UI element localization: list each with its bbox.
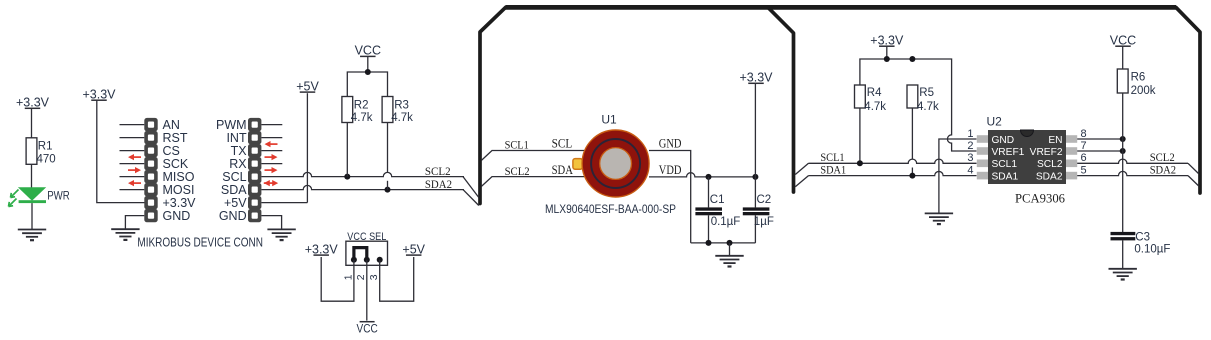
svg-text:VCC: VCC [357,321,379,335]
wire [380,257,414,301]
svg-text:+3.3V: +3.3V [16,96,50,110]
wire [97,101,145,203]
arrow SCL direction [265,167,278,173]
resistor R5 [907,85,918,108]
wire [729,243,731,256]
arrow CS direction [128,154,141,160]
svg-text:VCC: VCC [355,44,381,58]
svg-text:R3: R3 [394,100,409,112]
svg-text:RX: RX [229,157,247,171]
svg-text:GND: GND [219,209,247,223]
LED PWR (green) [18,187,46,203]
connector header P2 right column (pins PWM..GND) [248,118,261,222]
wire [347,72,387,97]
svg-text:SDA1: SDA1 [820,163,846,177]
svg-text:+5V: +5V [296,79,319,93]
wire [911,168,913,176]
svg-text:1: 1 [967,128,973,140]
svg-text:CS: CS [163,144,180,158]
svg-text:SCL2: SCL2 [425,164,451,178]
svg-text:4: 4 [967,164,973,176]
svg-text:AN: AN [163,118,180,132]
connector header P1 left column (pins AN..GND) [144,118,157,222]
wire [795,176,808,187]
wire [387,181,389,190]
svg-text:MLX90640ESF-BAA-000-SP: MLX90640ESF-BAA-000-SP [545,204,676,216]
wire net SCL2 [261,172,464,176]
svg-text:0.1µF: 0.1µF [711,216,741,228]
wire net SDA2 (right) [1077,171,1188,175]
junction (C1-VDD) [706,174,712,180]
wire (U2 pin2 VREF1) [947,133,976,151]
svg-text:EN: EN [1048,135,1062,146]
capacitor C2 [743,177,770,243]
LED emission arrows [9,190,19,207]
wire [795,163,808,174]
svg-text:4.7k: 4.7k [351,112,373,124]
junction (C2-VDD) [752,174,758,180]
junction [884,56,890,62]
wire [346,123,348,177]
wire [31,164,33,188]
svg-text:+3.3V: +3.3V [82,87,116,101]
svg-text:SDA2: SDA2 [425,177,452,191]
svg-text:2: 2 [967,140,973,152]
junction (R2-SCL2) [344,174,350,180]
svg-text:SDA: SDA [221,183,247,197]
wire (U2 pin8 EN) [1077,138,1123,140]
wire [261,216,281,230]
resistor R4 [855,85,866,108]
svg-text:R5: R5 [919,87,934,99]
svg-text:R1: R1 [38,140,53,152]
svg-text:PCA9306: PCA9306 [1015,191,1066,205]
wire [261,202,307,204]
svg-text:GND: GND [992,135,1015,146]
wire (U2 pin1 GND) [939,139,977,213]
wire net SCL2 (right) [1077,159,1188,163]
net +3.3V (U1 supply) [739,71,773,85]
svg-text:7: 7 [1081,140,1087,152]
wire [754,84,756,177]
wire [125,216,144,230]
svg-text:C3: C3 [1135,231,1150,243]
svg-text:R2: R2 [354,100,369,112]
wire [911,108,913,159]
svg-text:8: 8 [1081,128,1087,140]
arrow TX direction [265,141,278,147]
svg-text:+3.3V: +3.3V [163,196,197,210]
U2 pin numbers [967,128,1086,177]
wire [366,260,368,321]
svg-text:U1: U1 [601,113,617,127]
svg-text:GND: GND [163,209,191,223]
resistor R3 [382,97,393,123]
arrow MISO direction [128,180,141,186]
wire [321,257,354,301]
pin labels PWM INT TX RX SCL SDA +5V GND [216,118,247,223]
capacitor C1 [695,177,722,243]
wire [31,203,33,229]
svg-text:INT: INT [226,131,247,145]
ground (LED) [18,230,46,241]
net +5V (VCC SEL right) [402,242,425,256]
junction (C1 bottom) [706,240,712,246]
net +5V (rail) [296,79,319,93]
svg-text:+3.3V: +3.3V [870,33,904,47]
svg-text:+3.3V: +3.3V [305,242,339,256]
capacitor C3 [1111,232,1136,269]
svg-text:PWR: PWR [47,189,70,203]
svg-text:+5V: +5V [402,242,425,256]
wire net VDD [649,173,755,177]
svg-text:SCL1: SCL1 [505,137,529,151]
net +3.3V (VCC SEL left) [305,242,339,256]
wire [387,123,389,173]
svg-text:3: 3 [369,274,380,280]
pin labels AN RST CS SCK MISO MOSI +3.3V GND [163,118,197,223]
wire [463,177,479,198]
wire (+3.3V bus) [860,59,952,133]
wire [1122,47,1124,69]
arrow SCK direction [128,167,141,173]
svg-text:C2: C2 [757,194,772,206]
svg-text:SCL1: SCL1 [992,159,1018,170]
svg-text:200k: 200k [1131,85,1156,97]
junction (ground stub) [727,240,733,246]
wire (decoupling ground rail) [691,242,756,244]
svg-text:GND: GND [659,137,682,151]
IC U2 PCA9306 body [977,130,1077,184]
svg-text:PWM: PWM [216,118,247,132]
wire [886,47,888,59]
arrow RX direction [265,154,278,160]
junction (R4-SCL1) [857,160,863,166]
net VCC (pull-ups) [355,44,381,58]
ground (left header) [111,229,139,240]
jumper pin 2 [364,257,370,263]
svg-text:VDD: VDD [659,163,682,177]
resistor R1 [26,138,37,165]
wire [31,109,33,139]
sensor U1 MLX90640 body [582,130,649,197]
wire net SDA1 (to U2) [809,171,977,175]
arrow SDA bidirectional [264,180,278,186]
jumper pin 3 [377,257,383,263]
ground (right header) [267,229,295,240]
svg-text:3: 3 [967,152,973,164]
wire [859,108,861,163]
svg-text:SDA2: SDA2 [1036,172,1063,183]
svg-text:C1: C1 [710,194,725,206]
junction (EN-R6) [1120,136,1126,142]
junction [909,56,915,62]
wire stubs (left header signals) [120,125,145,190]
label VCC (jumper common) [357,321,379,335]
svg-text:R6: R6 [1131,72,1146,84]
wire stubs (PWM INT TX RX) [261,125,282,164]
U1 pin-1 marker tab [573,159,583,170]
wire net SCL2 (into magnified view) [481,177,584,187]
junction (R3-SDA2) [385,187,391,193]
svg-text:4.7k: 4.7k [917,101,939,113]
svg-text:0.10µF: 0.10µF [1134,244,1170,256]
ground (U1 decoupling) [715,256,743,267]
svg-text:470: 470 [37,153,56,165]
wire [1188,163,1199,173]
wire [1122,93,1124,232]
net +3.3V (mikroBUS rail) [82,87,116,101]
resistor R6 [1117,69,1128,93]
svg-text:SCL2: SCL2 [1037,159,1063,170]
wire (U1 GND) [649,151,691,243]
jumper shunt bracket [354,248,367,260]
svg-text:SCK: SCK [163,157,189,171]
wire net SCL1 (to U2) [809,159,977,163]
svg-text:SDA1: SDA1 [992,172,1019,183]
wire [367,57,369,72]
junction (VCC bus) [365,69,371,75]
svg-text:1: 1 [343,274,354,280]
wire [306,93,308,202]
svg-text:MISO: MISO [163,170,195,184]
wire [1188,176,1199,186]
svg-text:TX: TX [231,144,248,158]
svg-text:SCL: SCL [552,137,573,151]
wire net SDA2 [261,185,464,189]
net +3.3V (level shifter) [870,33,904,47]
junction (R5-SDA1) [909,173,915,179]
svg-text:1µF: 1µF [754,216,774,228]
svg-text:SDA: SDA [552,163,574,177]
svg-text:+3.3V: +3.3V [739,71,773,85]
svg-text:VREF1: VREF1 [992,147,1025,158]
svg-text:SCL2: SCL2 [505,164,530,178]
svg-text:4.7k: 4.7k [391,112,413,124]
svg-text:U2: U2 [987,115,1003,129]
svg-text:SDA2: SDA2 [1150,162,1176,176]
svg-text:R4: R4 [867,87,882,99]
U2 pin names [992,135,1063,183]
svg-text:MIKROBUS DEVICE CONN: MIKROBUS DEVICE CONN [137,235,263,249]
wire [463,190,479,206]
svg-text:2: 2 [356,274,367,280]
svg-text:6: 6 [1081,152,1087,164]
magnified-region banner outline (thick border) [480,7,1200,203]
svg-text:VREF2: VREF2 [1030,147,1063,158]
ground (U2) [925,213,953,224]
wire net SCL1 (into magnified view) [481,151,584,161]
svg-text:VCC: VCC [1110,33,1136,47]
svg-text:4.7k: 4.7k [864,101,886,113]
svg-text:5: 5 [1081,164,1087,176]
resistor R2 [342,97,353,123]
jumper pin 1 [351,257,357,263]
net VCC (R6) [1110,33,1136,47]
svg-text:RST: RST [163,131,188,145]
net +3.3V (power LED branch) [16,96,50,110]
svg-text:SCL: SCL [222,170,246,184]
wire (U2 pin7 VREF2) [1077,150,1123,152]
ground (C3) [1109,269,1137,280]
svg-text:+5V: +5V [224,196,247,210]
junction (VREF2-R6) [1120,148,1126,154]
svg-text:MOSI: MOSI [163,183,195,197]
jumper JP1 VCC SEL body [346,241,388,265]
